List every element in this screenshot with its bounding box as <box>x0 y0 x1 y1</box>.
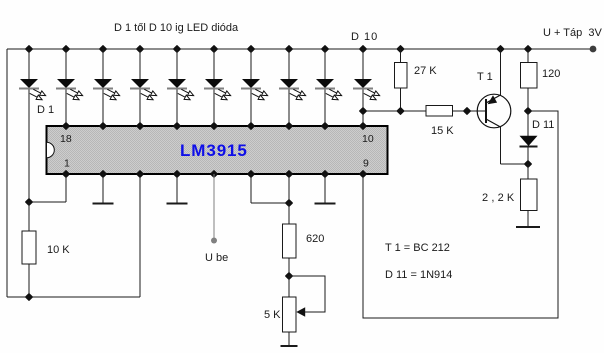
node IC bottom pin <box>137 171 143 177</box>
node IC bottom pin <box>248 171 254 177</box>
IC U1 LM3915 <box>47 126 388 174</box>
node rail junction LED3 <box>100 46 106 52</box>
resistor R 620 <box>283 203 325 276</box>
wire pin3 down to bottom return <box>139 174 141 297</box>
wire anode LED10 <box>362 49 364 79</box>
node IC bottom pin <box>360 171 366 177</box>
node IC bottom pin <box>211 171 217 177</box>
node IC top pin <box>248 123 254 129</box>
ground pin2 <box>93 174 114 204</box>
wire collector to D11 node <box>501 163 529 165</box>
node base wire dot <box>464 108 470 114</box>
node IC top pin <box>63 123 69 129</box>
svg-text:D 11: D 11 <box>532 119 554 131</box>
LED D5 <box>167 79 194 100</box>
svg-text:18: 18 <box>60 133 72 145</box>
resistor R 2.2K <box>482 164 540 227</box>
wire wiper loop <box>289 276 325 312</box>
node rail junction LED8 <box>286 46 292 52</box>
node 27K junction <box>397 108 403 114</box>
svg-text:10: 10 <box>362 133 374 145</box>
resistor R 10K <box>22 202 70 297</box>
resistor R 15K <box>426 106 454 138</box>
wire 15K to base <box>453 110 487 112</box>
node 620 top junction <box>286 200 292 206</box>
wire anode LED2 <box>65 49 67 79</box>
node rail junction 120 <box>525 46 531 52</box>
wire pin6 down <box>250 174 252 203</box>
node 620/5K junction <box>286 273 292 279</box>
svg-text:U be: U be <box>205 252 228 264</box>
ground pin8 <box>315 174 336 204</box>
node rail junction LED9 <box>322 46 328 52</box>
node IC bottom pin <box>286 171 292 177</box>
node rail junction LED4 <box>137 46 143 52</box>
LED D8 <box>279 79 306 100</box>
wire LED7 cathode to IC pin <box>250 89 252 126</box>
svg-text:9: 9 <box>363 158 369 170</box>
wire LED2 cathode to IC pin <box>65 89 67 126</box>
wire collector down <box>500 127 502 164</box>
wire LED9 cathode to IC pin <box>324 89 326 126</box>
LED D9 <box>315 79 342 100</box>
svg-text:D 1: D 1 <box>37 104 54 116</box>
wire anode LED1 <box>28 49 30 79</box>
wire LED4 cathode to IC pin <box>139 89 141 126</box>
svg-text:D 11 = 1N914: D 11 = 1N914 <box>385 269 452 281</box>
wire left rail vertical <box>6 49 8 297</box>
svg-text:D 1 től D 10 ig LED dióda: D 1 től D 10 ig LED dióda <box>114 22 239 34</box>
node rail junction LED5 <box>174 46 180 52</box>
svg-text:U + Táp 3V: U + Táp 3V <box>543 27 602 39</box>
svg-text:27 K: 27 K <box>414 65 437 77</box>
node rail junction LED7 <box>248 46 254 52</box>
node 10K top junction <box>26 199 32 205</box>
wire U be (pin5) <box>213 174 215 238</box>
node rail junction LED6 <box>211 46 217 52</box>
node rail junction LED10 <box>360 46 366 52</box>
svg-text:15 K: 15 K <box>431 125 454 137</box>
wire bottom left return <box>7 296 140 298</box>
wire LED8 cathode to IC pin <box>288 89 290 126</box>
svg-text:10 K: 10 K <box>47 244 70 256</box>
svg-text:1: 1 <box>64 158 70 170</box>
svg-text:T 1: T 1 <box>477 71 493 83</box>
wire emitter to rail <box>500 49 502 95</box>
node bottom wire junction <box>26 294 32 300</box>
wire anode LED6 <box>213 49 215 79</box>
node IC bottom pin <box>322 171 328 177</box>
node rail junction LED2 <box>63 46 69 52</box>
node IC bottom pin <box>174 171 180 177</box>
wire base bus <box>363 110 426 112</box>
wire pin7 down <box>288 174 290 203</box>
wire anode LED9 <box>324 49 326 79</box>
wire anode LED4 <box>139 49 141 79</box>
potentiometer R 5K <box>264 276 305 346</box>
LED D4 <box>130 79 157 100</box>
wire anode LED5 <box>176 49 178 79</box>
wire pin1 to 10K <box>29 201 66 203</box>
wire anode LED7 <box>250 49 252 79</box>
wire pin9 feedback loop <box>363 111 558 318</box>
node IC top pin <box>100 123 106 129</box>
terminal U + Tap 3V <box>590 46 597 53</box>
ground pin4 <box>167 174 188 204</box>
wire anode LED3 <box>102 49 104 79</box>
wire LED5 cathode to IC pin <box>176 89 178 126</box>
node IC top pin <box>211 123 217 129</box>
svg-text:120: 120 <box>542 68 560 80</box>
node rail junction 27K <box>397 46 403 52</box>
wire pin1 down <box>65 174 67 202</box>
resistor R 27K <box>395 49 438 111</box>
LED D10 <box>353 79 380 100</box>
svg-text:2,2K: 2,2K <box>482 192 517 204</box>
node IC bottom pin <box>100 171 106 177</box>
svg-text:T 1 = BC 212: T 1 = BC 212 <box>385 242 450 254</box>
LED D7 <box>241 79 268 100</box>
node collector/D11/2.2K junction <box>525 161 531 167</box>
wire LED6 cathode to IC pin <box>213 89 215 126</box>
node rail junction LED1 <box>26 46 32 52</box>
wire LED1 cathode down to 10K node <box>28 89 30 202</box>
svg-text:LM3915: LM3915 <box>180 141 248 160</box>
diode D11 <box>520 111 555 164</box>
wire LED10 cathode to IC pin <box>362 89 364 126</box>
wire pin6 to pin7 column <box>251 202 289 204</box>
node LED10 junction <box>360 108 366 114</box>
LED D2 <box>56 79 83 100</box>
top supply rail wire <box>7 48 593 50</box>
node 120/D11 junction <box>525 108 531 114</box>
node IC top pin <box>137 123 143 129</box>
node IC top pin <box>360 123 366 129</box>
node IC top pin <box>174 123 180 129</box>
LED D6 <box>204 79 231 100</box>
terminal U be <box>211 238 217 244</box>
svg-text:5 K: 5 K <box>264 309 281 321</box>
LED D3 <box>93 79 120 100</box>
wire anode LED8 <box>288 49 290 79</box>
LED D1 <box>19 79 46 100</box>
node rail junction T1 emitter <box>497 46 503 52</box>
node IC top pin <box>286 123 292 129</box>
svg-text:D 10: D 10 <box>351 31 378 43</box>
node IC bottom pin <box>63 171 69 177</box>
resistor R 120 <box>521 49 561 111</box>
node IC top pin <box>322 123 328 129</box>
svg-text:620: 620 <box>306 233 324 245</box>
wire LED3 cathode to IC pin <box>102 89 104 126</box>
transistor Q1 T1 (BC212 PNP) <box>477 71 511 128</box>
